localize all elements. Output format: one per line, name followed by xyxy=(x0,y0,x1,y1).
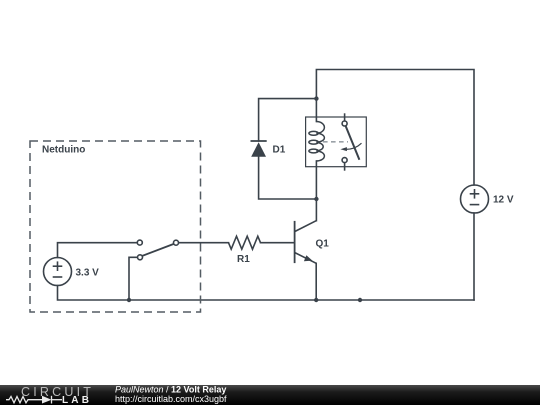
svg-text:D1: D1 xyxy=(273,145,286,156)
node junction switch-ground xyxy=(127,298,131,302)
wire resistor to base xyxy=(261,242,295,244)
node junction diode-top xyxy=(314,96,318,100)
node junction diode-bottom / collector xyxy=(314,197,318,201)
svg-text:LAB: LAB xyxy=(62,395,92,405)
relay switch xyxy=(342,113,359,170)
wire switch throw to bottom rail xyxy=(129,257,138,300)
svg-text:PaulNewton / 12 Volt Relay: PaulNewton / 12 Volt Relay xyxy=(115,385,226,395)
diode D1 xyxy=(251,141,267,157)
relay actuate arrow xyxy=(346,143,362,149)
svg-text:http://circuitlab.com/cx3ugbf: http://circuitlab.com/cx3ugbf xyxy=(115,394,227,404)
logo zigzag + diode xyxy=(6,396,62,404)
svg-text:Netduino: Netduino xyxy=(42,145,85,156)
svg-text:Q1: Q1 xyxy=(316,239,330,250)
svg-text:R1: R1 xyxy=(237,254,250,265)
node junction emitter-ground xyxy=(314,298,318,302)
relay dashed link xyxy=(323,141,348,143)
transistor Q1 xyxy=(295,221,317,264)
wire diode branch xyxy=(259,99,317,141)
wire emitter to bottom rail xyxy=(315,263,317,300)
wire 3.3V top to switch xyxy=(58,243,138,258)
voltage source V2 12V xyxy=(461,185,489,213)
switch SW1 xyxy=(137,240,178,260)
relay K1 box xyxy=(306,117,367,167)
footer bar xyxy=(0,385,540,405)
wire switch common to resistor xyxy=(179,242,229,244)
Netduino dashed enclosure xyxy=(30,141,201,312)
resistor R1 xyxy=(229,236,261,249)
wire bottom rail xyxy=(58,286,475,301)
voltage source V1 3.3V xyxy=(44,258,72,286)
svg-text:3.3 V: 3.3 V xyxy=(76,268,100,279)
wire right rail lower xyxy=(473,213,475,300)
wire relay vertical xyxy=(315,99,317,122)
wire top rail xyxy=(316,70,474,186)
node junction bottom-rail xyxy=(358,298,362,302)
svg-text:12 V: 12 V xyxy=(493,195,514,206)
relay coil xyxy=(309,122,325,162)
